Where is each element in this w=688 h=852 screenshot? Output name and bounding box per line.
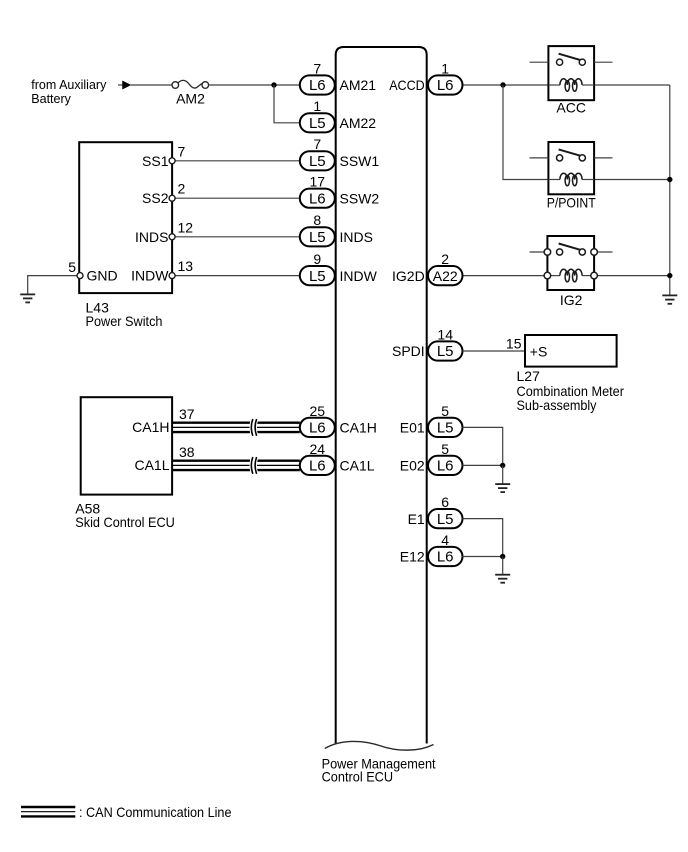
battery feed arrow [118, 81, 131, 89]
legend CAN line sample (triple line) [21, 807, 75, 816]
svg-text:INDS: INDS [340, 229, 373, 245]
svg-text:L6: L6 [437, 549, 454, 566]
svg-text:7: 7 [313, 136, 321, 152]
svg-text:5: 5 [441, 441, 449, 457]
svg-text:12: 12 [178, 219, 194, 235]
svg-text:CA1L: CA1L [134, 457, 169, 473]
wire: fuse to pin AM21 [209, 84, 300, 86]
svg-text:SS2: SS2 [142, 190, 169, 206]
svg-text:1: 1 [441, 60, 449, 76]
svg-text:38: 38 [179, 444, 195, 460]
wire: E02 to ground node [462, 464, 502, 466]
svg-text:INDS: INDS [135, 229, 168, 245]
pin terminal circle INDW [169, 273, 175, 279]
wire: ACC coil to right rail [594, 84, 670, 86]
CAN bus break symbol (CA1L) [250, 457, 256, 474]
svg-text:L5: L5 [309, 153, 326, 170]
relay P/POINT coil wire inside box [548, 179, 594, 181]
svg-text:L5: L5 [437, 511, 454, 528]
svg-text:L5: L5 [309, 268, 326, 285]
junction dot E1/E12 [500, 554, 505, 559]
relay IG2 terminal circles on box edge [544, 249, 597, 279]
connector pin INDW (L5) pin 9 [300, 251, 335, 285]
wire: P/POINT coil to rail [594, 179, 670, 181]
pin terminal circle INDS [169, 234, 175, 240]
svg-text:E02: E02 [400, 458, 425, 474]
wire: E01 down to E02 ground node [462, 427, 502, 465]
svg-text:24: 24 [310, 441, 326, 457]
from Auxiliary Battery label [31, 78, 107, 106]
svg-text:L6: L6 [437, 458, 454, 475]
svg-text:L5: L5 [437, 343, 454, 360]
connector pin AM21 (L6) pin 7 [300, 60, 335, 94]
A58 designator label [75, 500, 175, 529]
connector pin AM22 (L5) pin 1 [300, 98, 335, 132]
wire: ACCD to ACC relay coil [462, 84, 548, 86]
svg-text:2: 2 [178, 181, 186, 197]
junction dot on AM2 feed [271, 82, 276, 87]
svg-text:25: 25 [310, 403, 326, 419]
svg-text:7: 7 [313, 60, 321, 76]
svg-text:from Auxiliary: from Auxiliary [31, 78, 107, 92]
svg-text:2: 2 [441, 251, 449, 267]
junction dot E01/E02 [500, 463, 505, 468]
svg-text:Power Switch: Power Switch [86, 313, 163, 329]
connector pin IG2D (A22) pin 2 [428, 251, 463, 285]
svg-text:Sub-assembly: Sub-assembly [517, 397, 597, 413]
svg-text:14: 14 [437, 326, 453, 342]
svg-text:GND: GND [87, 268, 118, 284]
svg-text:L5: L5 [437, 420, 454, 437]
svg-text:17: 17 [310, 174, 326, 190]
connector pin E01 (L5) pin 5 [428, 403, 463, 437]
svg-text:CA1H: CA1H [340, 420, 377, 436]
svg-text:6: 6 [441, 494, 449, 510]
wire: E1 down to E12 ground node [462, 519, 502, 557]
ground (E01/E02) [495, 484, 510, 492]
svg-text:L5: L5 [309, 229, 326, 246]
svg-text:5: 5 [68, 259, 76, 275]
wire: E12 to ground node [462, 556, 502, 558]
fuse AM2 [172, 80, 209, 88]
CAN bus wire CA1L (triple line) [172, 461, 300, 470]
ground (L43 GND) [20, 294, 35, 302]
wire: GND to ground [28, 276, 80, 295]
wire: SS2 to SSW2 [172, 197, 300, 199]
svg-text:AM21: AM21 [340, 77, 377, 93]
wire: IG2 coil to rail [594, 275, 670, 277]
relay ACC coil wire inside box [548, 84, 594, 86]
connector pin CA1H (L6) pin 25 [300, 403, 335, 437]
svg-text:5: 5 [441, 403, 449, 419]
svg-text:ACC: ACC [556, 100, 586, 116]
relay ACC coil [560, 79, 582, 92]
relay P/POINT switch contacts [557, 149, 586, 161]
relay IG2 switch stubs [530, 251, 613, 253]
wire: right ground rail [669, 85, 671, 295]
connector pin E12 (L6) pin 4 [428, 532, 463, 566]
relay ACC switch stubs [530, 61, 613, 63]
ECU body torn-bottom wave [325, 741, 434, 750]
svg-text:L6: L6 [309, 190, 326, 207]
L27 Combination Meter box [525, 335, 617, 367]
wire: branch down to P/POINT coil [503, 85, 548, 180]
relay P/POINT switch stubs [530, 157, 613, 159]
junction dot P/POINT at rail [667, 177, 672, 182]
svg-text:L5: L5 [309, 115, 326, 132]
relay IG2 switch contacts [557, 244, 586, 256]
connector pin CA1L (L6) pin 24 [300, 441, 335, 475]
relay IG2 coil wire inside box [547, 275, 594, 277]
svg-text:INDW: INDW [340, 268, 378, 284]
ground (right rail) [662, 295, 677, 303]
svg-text:9: 9 [313, 251, 321, 267]
svg-text:IG2: IG2 [560, 292, 583, 308]
junction dot ACCD branch [500, 82, 505, 87]
relay P/POINT coil [560, 173, 582, 186]
relay IG2 coil [560, 269, 582, 282]
svg-text:Battery: Battery [31, 92, 71, 106]
wire: INDW to INDW [172, 275, 300, 277]
connector pin INDS (L5) pin 8 [300, 212, 335, 246]
svg-text:L6: L6 [309, 458, 326, 475]
wire: branch down to pin AM22 [274, 85, 300, 123]
svg-text:IG2D: IG2D [392, 268, 425, 284]
CAN bus break symbol (CA1H) [250, 419, 256, 436]
pin terminal circle GND [77, 273, 83, 279]
connector pin SSW2 (L6) pin 17 [300, 174, 335, 208]
connector pin SSW1 (L5) pin 7 [300, 136, 335, 170]
wire: SPDI to combination meter [462, 350, 525, 352]
svg-text:7: 7 [178, 143, 186, 159]
svg-text:A22: A22 [433, 268, 458, 284]
relay ACC switch contacts [557, 54, 586, 66]
ECU body outline (Power Management Control ECU) [336, 47, 427, 744]
svg-text:E1: E1 [408, 511, 425, 527]
svg-text:SSW1: SSW1 [340, 153, 380, 169]
svg-text:L6: L6 [309, 420, 326, 437]
svg-text:8: 8 [313, 212, 321, 228]
svg-text:4: 4 [441, 532, 449, 548]
svg-text:INDW: INDW [131, 268, 169, 284]
pin terminal circle SS2 [169, 195, 175, 201]
svg-text:SPDI: SPDI [392, 343, 425, 359]
svg-text:13: 13 [178, 258, 194, 274]
relay IG2 box [547, 236, 594, 290]
svg-text:SSW2: SSW2 [340, 190, 380, 206]
svg-text:Control ECU: Control ECU [322, 769, 394, 785]
L43 Power Switch box [79, 142, 172, 293]
junction dot IG2 at rail [667, 273, 672, 278]
svg-text:37: 37 [179, 406, 195, 422]
svg-text:Skid Control ECU: Skid Control ECU [75, 514, 175, 530]
svg-text:SS1: SS1 [142, 153, 169, 169]
svg-text:AM2: AM2 [176, 90, 205, 106]
connector pin E1 (L5) pin 6 [428, 494, 463, 528]
svg-text:E12: E12 [400, 549, 425, 565]
svg-text:ACCD: ACCD [389, 77, 425, 93]
label Power Management Control ECU [322, 755, 436, 784]
connector pin E02 (L6) pin 5 [428, 441, 463, 475]
svg-text:P/POINT: P/POINT [547, 195, 596, 211]
CAN bus wire CA1H (triple line) [172, 423, 300, 432]
svg-text:AM22: AM22 [340, 115, 377, 131]
svg-text:L27: L27 [517, 368, 541, 384]
svg-text:1: 1 [313, 98, 321, 114]
connector pin ACCD (L6) pin 1 [428, 60, 463, 94]
svg-text:: CAN Communication Line: : CAN Communication Line [79, 804, 232, 820]
svg-text:E01: E01 [400, 420, 425, 436]
svg-text:CA1H: CA1H [132, 419, 169, 435]
svg-text:L6: L6 [309, 77, 326, 94]
wire: node down to ground [502, 557, 504, 575]
pin terminal circle SS1 [169, 158, 175, 164]
ground (E1/E12) [495, 575, 510, 583]
wire: node down to ground [502, 465, 504, 484]
svg-text:15: 15 [506, 335, 522, 351]
wire: INDS to INDS [172, 236, 300, 238]
svg-text:CA1L: CA1L [340, 458, 375, 474]
wire: arrow to fuse AM2 [131, 84, 172, 86]
wire: SS1 to SSW1 [172, 160, 300, 162]
A58 Skid Control ECU box [81, 397, 172, 494]
connector pin SPDI (L5) pin 14 [428, 326, 463, 360]
wire: IG2D to IG2 relay coil [462, 275, 547, 277]
L27 designator label [517, 368, 625, 413]
svg-text:L6: L6 [437, 77, 454, 94]
L43 designator label [86, 300, 163, 330]
relay P/POINT box [548, 142, 594, 194]
relay ACC box [548, 46, 594, 100]
svg-text:+S: +S [530, 343, 548, 359]
